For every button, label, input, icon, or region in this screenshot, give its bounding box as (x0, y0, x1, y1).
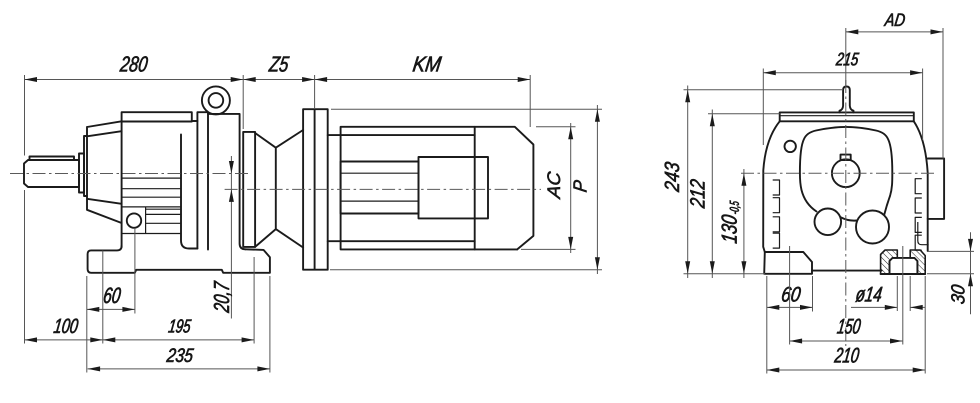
motor small flange (243, 132, 255, 247)
dim 235 (88, 276, 270, 373)
dim AD (846, 28, 943, 159)
dim 150 (790, 246, 903, 345)
lower shaft bore right (856, 211, 889, 244)
motor mounting flange (303, 109, 328, 270)
dim 215 (763, 69, 922, 146)
front bearing cover (87, 121, 122, 223)
dim 130-0,5 (743, 169, 745, 278)
horizontal centerline right view (741, 172, 936, 174)
motor axis centerline (225, 188, 541, 190)
dim 243 (684, 86, 844, 279)
oil plug (127, 213, 141, 227)
gearbox base foot (88, 246, 270, 273)
body outline right edge (914, 121, 928, 251)
vent plug (840, 87, 854, 113)
dim 100 (25, 190, 103, 344)
dim P (330, 105, 602, 274)
dim 60 right view (767, 276, 813, 374)
dim 20,7 axis offset (230, 156, 232, 319)
body bottom edge (812, 270, 882, 272)
dim 210 (767, 276, 925, 374)
dim 212 (708, 110, 780, 279)
keyway (841, 155, 851, 160)
dim phi14 (851, 276, 925, 311)
housing boss contour (800, 127, 892, 215)
motor stator block (341, 162, 419, 214)
lower shaft bore left (815, 209, 842, 236)
dim Z5 (243, 75, 314, 108)
right side ribs (915, 179, 922, 251)
bearing cover step (84, 136, 87, 196)
rear column of housing (197, 112, 208, 249)
dim 30 (927, 232, 974, 314)
output shaft bore (832, 159, 860, 187)
body outline left edge (763, 121, 780, 252)
output axis centerline (10, 173, 248, 175)
eyebolt (202, 86, 230, 114)
top plate (780, 112, 914, 121)
adapter plate (208, 114, 245, 249)
right foot sectioned (881, 250, 898, 274)
dim 195 (103, 257, 254, 344)
dim AC (521, 123, 576, 253)
small plug hole top left (785, 141, 796, 152)
flange corner behind body (918, 222, 929, 245)
right foot recess (881, 258, 926, 274)
gearbox housing body (122, 112, 198, 248)
contour sag between shaft bores (841, 217, 857, 220)
shaft collar (79, 154, 84, 193)
dim 280 (25, 75, 244, 156)
dim 60 left view (87, 228, 135, 373)
motor body (328, 127, 518, 250)
shaft key (30, 157, 75, 161)
terminal box profile (928, 159, 944, 219)
dim KM (315, 75, 531, 127)
left foot (764, 252, 812, 274)
fan cowl (475, 127, 534, 250)
vertical centerline right view (845, 80, 847, 346)
left side ribs (773, 180, 780, 248)
adapter bell housing (255, 130, 303, 248)
housing rib lines (122, 178, 181, 233)
output shaft (24, 160, 79, 187)
terminal box (419, 157, 489, 218)
